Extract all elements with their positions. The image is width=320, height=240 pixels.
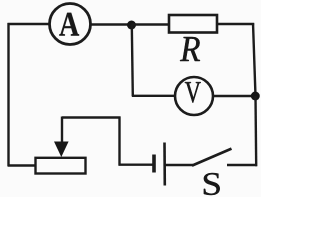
- wire ammeter to node: [91, 23, 132, 25]
- node junction dot right: [251, 92, 260, 101]
- label S: [204, 173, 220, 195]
- wire right vertical upper: [253, 23, 256, 96]
- node junction dot left: [127, 21, 136, 30]
- wire node1 down: [132, 25, 133, 96]
- wire branch vertical: [118, 117, 120, 166]
- rheostat wiper stem: [61, 117, 63, 145]
- battery long plate (+): [163, 143, 166, 186]
- resistor R box: [169, 15, 217, 33]
- wire battery to switch: [165, 164, 193, 166]
- ammeter A: [50, 4, 91, 45]
- wire node to resistor: [132, 23, 170, 25]
- rheostat wiper arrowhead: [54, 142, 69, 158]
- voltmeter V: [175, 77, 213, 115]
- battery short plate (-): [152, 155, 156, 173]
- wire to voltmeter: [132, 95, 176, 97]
- wire branch horizontal over rheostat: [62, 116, 121, 118]
- wire left to rheostat: [8, 164, 36, 166]
- wire resistor to top-right corner: [217, 23, 254, 25]
- wire switch fixed contact: [227, 164, 257, 166]
- label R: [180, 37, 200, 61]
- rheostat box: [36, 158, 86, 174]
- wire voltmeter to right node: [213, 95, 256, 97]
- wire rheostat branch to battery: [119, 163, 153, 165]
- wire left vertical: [7, 23, 9, 167]
- switch S blade: [192, 149, 232, 166]
- wire right vertical lower: [254, 96, 257, 166]
- wire top-left horizontal: [8, 23, 50, 25]
